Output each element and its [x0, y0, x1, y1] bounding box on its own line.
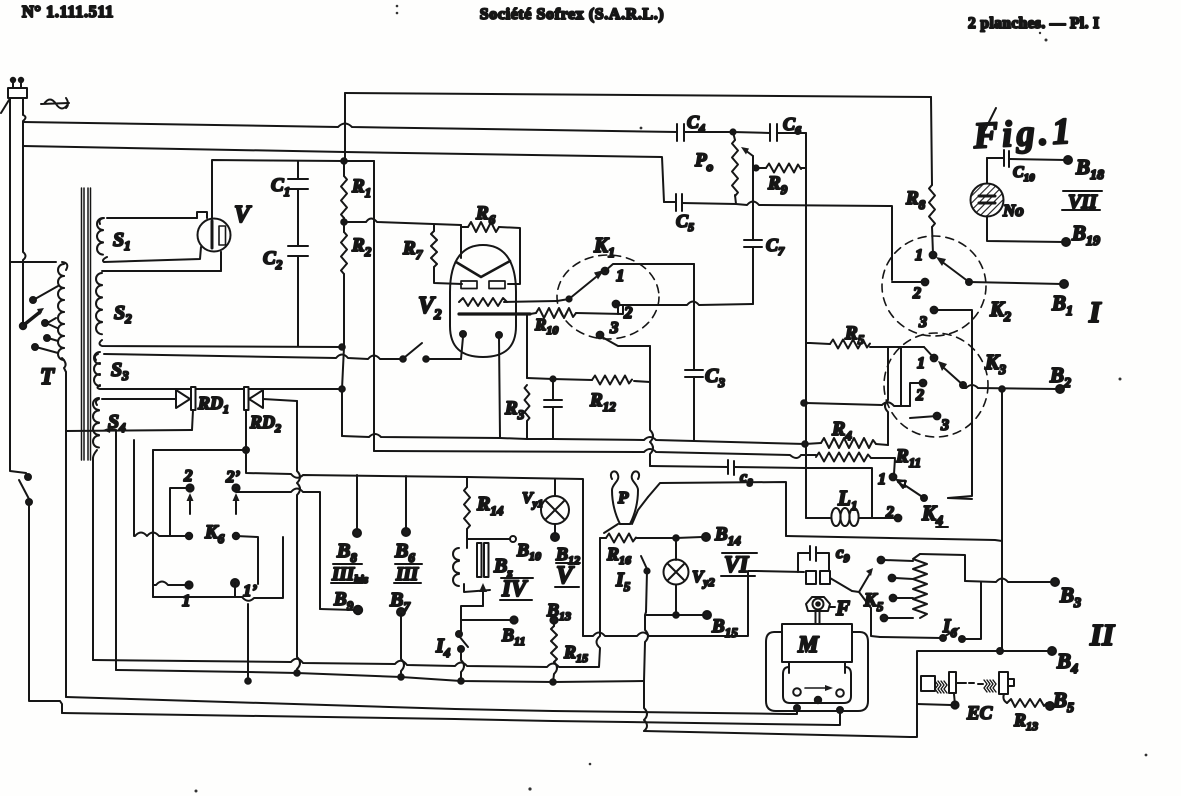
wire K4 arm to riser	[948, 498, 972, 499]
group V label	[555, 562, 580, 589]
wire 2prime to drop rail	[236, 488, 320, 609]
scan speck 2	[528, 787, 531, 790]
svg-text:V: V	[556, 562, 575, 589]
K6 left side vertical	[152, 450, 154, 597]
K4 label	[921, 501, 948, 529]
winding S3	[94, 352, 401, 389]
I5 drop through rails	[644, 612, 648, 731]
group IV label	[500, 576, 533, 601]
K6 armature left	[134, 440, 192, 539]
K1 relay arm	[557, 270, 604, 302]
terminal B18	[1064, 156, 1072, 164]
svg-text:3: 3	[940, 417, 949, 434]
wire plate rail V to R6 R7	[344, 219, 461, 226]
rheostat K5 zigzag	[913, 554, 965, 618]
resistor R1	[341, 161, 347, 222]
wire top supply bus	[345, 93, 931, 97]
V2 plate chevron	[456, 261, 510, 277]
primary bottom vertical	[65, 431, 67, 697]
resistor R5	[806, 340, 924, 349]
inductor L1	[806, 508, 895, 526]
capacitor C5	[664, 194, 892, 280]
wire K5 bottom rail to I6	[880, 637, 941, 638]
svg-text:1: 1	[917, 355, 925, 372]
terminal B1	[1060, 280, 1068, 288]
K6 armature right	[233, 533, 258, 584]
svg-text:VI: VI	[724, 552, 749, 577]
riser K1 contact3 to C8 wire	[650, 346, 653, 466]
K4 arm	[897, 480, 927, 501]
K3 contact 2	[910, 380, 926, 406]
wire V cathode to S2	[220, 252, 222, 271]
capacitor C4	[677, 124, 733, 141]
capacitor C3	[685, 305, 703, 441]
K3 dashed circle	[884, 333, 988, 437]
svg-text:M: M	[797, 632, 820, 657]
scan speck 7	[1119, 378, 1122, 381]
wire contact rail y405	[801, 400, 910, 406]
V2 grid box left	[461, 281, 477, 289]
junction dot B2 rail riser	[999, 386, 1005, 392]
interrupter I5	[641, 556, 650, 612]
bus S rail	[62, 713, 840, 725]
scan speck 4	[195, 790, 198, 793]
resistor R13	[1007, 699, 1047, 707]
K5 arm	[852, 568, 880, 637]
K1 contact 1	[602, 264, 694, 274]
svg-text:II: II	[1089, 617, 1115, 652]
riser R4 to R5	[885, 347, 888, 445]
svg-text:P: P	[617, 488, 629, 507]
K3 arm	[938, 361, 966, 388]
K6 contact 2prime	[232, 484, 239, 491]
scan speck 3	[1045, 39, 1048, 42]
wire K3 arm to B2	[963, 385, 1058, 389]
Po wiper arrow	[741, 147, 753, 199]
winding S2	[96, 252, 340, 347]
motor M body	[782, 624, 852, 673]
K2 contact 3	[931, 307, 972, 384]
svg-text:1: 1	[915, 247, 923, 264]
svg-text:V: V	[234, 202, 252, 228]
scan speck 1	[195, 5, 1148, 793]
V2 heater dots	[460, 331, 466, 337]
wire primary bottom and RD1 rail	[66, 372, 192, 431]
scan speck 6	[640, 127, 643, 130]
wire K1-1 down through C3	[693, 264, 695, 305]
terminal B4	[1048, 647, 1056, 655]
bus T rail	[644, 651, 917, 737]
terminal B10	[467, 536, 516, 542]
bypass capacitor at R3	[544, 376, 562, 439]
interrupter I4	[456, 631, 468, 684]
svg-text:III: III	[395, 564, 419, 585]
capacitor C2	[288, 222, 308, 346]
main right vertical C6 to L1 box	[805, 133, 807, 518]
svg-text:2 planches. — Pl. I: 2 planches. — Pl. I	[968, 15, 1100, 32]
motor brushes	[793, 685, 844, 713]
wire R3 top rail	[527, 378, 592, 380]
svg-text:T: T	[40, 364, 55, 389]
bus P rail	[93, 538, 600, 667]
wire bus2	[23, 146, 664, 202]
junction dots bus A	[802, 441, 808, 447]
wire R2 down to S3 junction	[342, 347, 344, 436]
K4 arm arrowhead	[898, 481, 905, 488]
svg-text:2: 2	[915, 387, 924, 404]
terminal B11	[461, 616, 518, 623]
K3 contact 1	[924, 347, 937, 361]
svg-text:I: I	[1088, 296, 1102, 329]
terminal B2	[1056, 385, 1064, 393]
K6 feed rail to buzzer branch	[246, 450, 583, 636]
buzzer Bz reed bars	[477, 543, 489, 577]
wire RD2 cathode drop	[243, 410, 249, 453]
wire K6 top rail	[153, 449, 246, 451]
K2 contact 1	[930, 252, 937, 259]
riser R5 to contact rail	[900, 347, 902, 406]
K6 contact 1	[153, 581, 193, 588]
capacitor C6	[733, 124, 806, 141]
lamp Vy2	[664, 538, 689, 618]
wire B3 rail	[965, 579, 1051, 583]
resistor R14	[464, 477, 470, 548]
EC screw contact right	[978, 672, 1014, 703]
svg-text:1: 1	[878, 471, 886, 488]
svg-text:Fig.1: Fig.1	[971, 111, 1075, 157]
K4 contact 1	[890, 474, 897, 481]
K6 contact 2	[170, 484, 194, 536]
terminal B9	[320, 606, 362, 614]
wire L1 box to riser rail	[786, 536, 1002, 541]
vertical B2 junction to B4 line	[1001, 389, 1003, 650]
resistor R15	[550, 623, 557, 685]
K1 contact 3	[597, 332, 650, 346]
wire bus1 to C4 line	[23, 122, 677, 132]
svg-text:1: 1	[182, 591, 191, 610]
resistor R11	[816, 453, 895, 475]
wire R1 R2 junction	[341, 219, 347, 225]
svg-text:3: 3	[609, 318, 619, 337]
terminal B19	[1062, 238, 1070, 246]
wire bus B	[374, 449, 816, 458]
AC sine symbol	[41, 98, 69, 109]
group IIIbis label	[331, 564, 369, 586]
K4 contact 2	[895, 515, 902, 522]
resistor R2	[341, 222, 347, 347]
vertical K2-3 to K4 arm with B2 hop	[948, 384, 972, 498]
junction S2 bottom	[339, 344, 345, 350]
terminal B14	[676, 533, 710, 541]
wire K2 arm to B1	[969, 282, 1062, 284]
adjusting knob F	[806, 597, 835, 624]
wire heater right lead down to bus A	[499, 338, 500, 437]
wire plug left lead	[9, 99, 11, 262]
svg-text:2: 2	[885, 504, 894, 521]
terminal B8	[353, 475, 361, 537]
group VI label	[721, 552, 757, 577]
svg-text:IV: IV	[501, 576, 528, 601]
svg-text:2: 2	[912, 285, 921, 302]
wire C1 R1 top rail	[344, 160, 374, 162]
K3 contact 3	[910, 413, 940, 420]
terminal B3	[1051, 578, 1059, 586]
terminal B7	[397, 608, 405, 680]
resistor R10	[536, 308, 576, 318]
svg-text:EC: EC	[966, 703, 993, 724]
wire cathode R10 line	[530, 313, 536, 314]
B15 box bottom rail	[583, 571, 804, 636]
svg-text:2: 2	[183, 466, 193, 485]
group VII label	[1062, 191, 1102, 213]
wire cathode down to R3 rail	[526, 314, 528, 378]
transformer primary tap wires	[30, 286, 58, 353]
wire R12 to K1-3 riser	[634, 381, 650, 382]
K2 contact 2	[892, 279, 928, 286]
bus Q rail	[116, 670, 644, 682]
wire grid zigzag to K1 arm	[504, 301, 557, 302]
svg-text:No: No	[1002, 201, 1024, 220]
winding S1	[97, 218, 201, 262]
bus R rail	[66, 697, 797, 714]
lamp Vy1	[541, 479, 569, 533]
wire plug right lead	[23, 98, 26, 323]
K2 arm	[936, 257, 972, 285]
tube V envelope	[198, 219, 231, 252]
resistor R9	[753, 164, 806, 173]
capacitor C1	[288, 161, 308, 222]
power plug	[1, 78, 27, 113]
wire K1-2 to C7	[616, 302, 753, 306]
resistor R7	[431, 225, 462, 284]
capacitor C9	[798, 546, 829, 572]
K1 dashed circle	[557, 255, 659, 339]
S4 bottom lead	[92, 458, 94, 660]
grid feed vertical to bus B	[373, 161, 375, 451]
resistor R4	[821, 438, 888, 448]
trimmer plates	[806, 571, 852, 591]
tube V2 envelope	[450, 245, 516, 357]
K1 contact 2	[613, 301, 620, 314]
junction S3 bottom	[339, 386, 345, 392]
wire P branch to motor rail	[648, 482, 786, 536]
group III label	[394, 564, 422, 585]
resistor R8	[929, 97, 935, 254]
heater switch	[400, 343, 461, 362]
neon lamp No	[971, 158, 1065, 242]
rheostat taps	[878, 557, 913, 622]
tube V electrodes	[197, 212, 226, 248]
wire bus A	[342, 434, 821, 444]
capacitor C7	[744, 199, 762, 304]
capacitor C10	[987, 150, 1066, 167]
L1 box	[806, 468, 872, 518]
motor enclosure	[766, 632, 868, 711]
svg-text:3: 3	[918, 314, 927, 331]
transformer core	[82, 188, 91, 460]
resistor R16	[600, 534, 676, 543]
svg-text:1: 1	[616, 266, 625, 285]
K6 bottom drop to bus	[245, 604, 251, 684]
interrupter I6	[940, 582, 981, 642]
V2 grid box right	[489, 281, 505, 289]
K6 arrow 2	[187, 493, 194, 514]
resistor R12	[592, 376, 632, 385]
wire RD2 anode drop to bottom bus	[294, 401, 300, 676]
terminal B15	[646, 611, 711, 619]
transformer T primary coil	[10, 262, 67, 372]
wire grid rail junction dot	[341, 158, 347, 164]
terminal B6	[402, 476, 410, 536]
wire heater left lead	[461, 337, 463, 359]
terminal B13	[550, 616, 557, 623]
V2 control grid zigzag	[459, 298, 507, 306]
terminal B5	[1046, 702, 1054, 710]
diode RD2	[244, 387, 297, 410]
S4 tap arrow wire	[103, 427, 116, 670]
wire R10 to K1 contact2	[576, 305, 623, 314]
resistor R3	[525, 385, 530, 439]
winding S4	[93, 398, 176, 458]
K6 contact 1prime	[231, 579, 239, 597]
svg-text:N° 1.111.511: N° 1.111.511	[22, 2, 114, 21]
capacitor C8	[650, 460, 806, 475]
figure title Fig.1	[971, 108, 1075, 157]
EC screw contact left	[921, 672, 974, 693]
V2 cathode bar	[459, 312, 530, 315]
K6 arrow 2prime	[233, 493, 240, 514]
buzzer Bz coil	[453, 548, 459, 586]
resistor R6	[461, 222, 520, 284]
junction Vy2 top	[673, 535, 679, 541]
svg-text:F: F	[835, 596, 850, 620]
terminal B12	[551, 533, 559, 541]
diode RD1	[176, 387, 196, 430]
K6 bottom rail	[153, 537, 283, 601]
wire B4 rail	[918, 648, 1048, 654]
K2 dashed circle	[882, 236, 986, 336]
motor inner frame	[783, 667, 851, 703]
buzzer contact and arrow	[461, 583, 490, 631]
EC feed wire	[917, 694, 959, 709]
transformer tap selector arrow	[20, 308, 44, 329]
potentiometer Po	[730, 129, 738, 204]
svg-text:Société Sofrex (S.A.R.L.): Société Sofrex (S.A.R.L.)	[480, 6, 664, 23]
wire plate V lead	[460, 227, 462, 258]
svg-text:2’: 2’	[225, 467, 241, 486]
vertical from top bus to R1	[344, 93, 346, 161]
main switch lower left	[10, 262, 62, 713]
wire V grid lead	[212, 160, 344, 219]
pickup P lyre	[604, 471, 648, 533]
scan speck 5	[418, 251, 421, 254]
